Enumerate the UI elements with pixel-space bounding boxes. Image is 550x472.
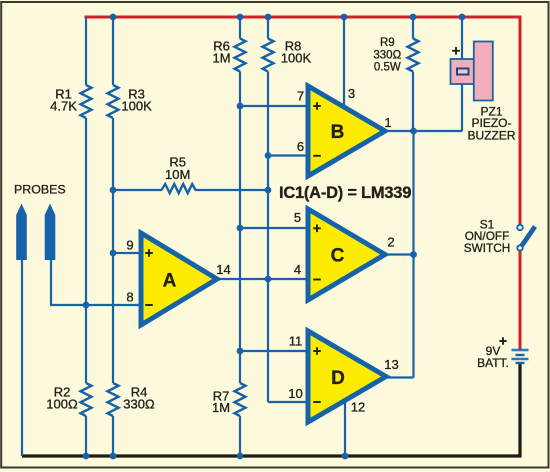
- op-amp comparator IC1A: [141, 233, 217, 325]
- svg-text:IC1(A-D) = LM339: IC1(A-D) = LM339: [279, 184, 411, 202]
- wire: pin 12 ground of IC1 to ground bus: [344, 399, 346, 456]
- resistor R6: [235, 39, 246, 72]
- wire: R9 pull-up branch vertical: [412, 17, 414, 131]
- junction: rail / R8 branch: [265, 14, 272, 21]
- wire: switch S1 to battery positive (red): [519, 251, 522, 350]
- svg-text:13: 13: [384, 357, 398, 372]
- junction: ground / pin 12: [342, 453, 349, 460]
- label: R3 value: [121, 87, 152, 114]
- resistor R7: [235, 383, 246, 416]
- svg-text:0.5W: 0.5W: [374, 62, 401, 74]
- svg-text:SWITCH: SWITCH: [464, 241, 511, 255]
- svg-text:B: B: [331, 122, 345, 143]
- svg-text:4.7K: 4.7K: [50, 98, 77, 113]
- junction: rail / R6 branch: [237, 14, 244, 21]
- wire: R1-R2 sensing branch vertical: [85, 17, 87, 456]
- junction: ground / R7: [237, 453, 244, 460]
- resistor R3: [108, 85, 119, 118]
- svg-text:BATT.: BATT.: [477, 356, 509, 370]
- wire: output bus to piezo buzzer negative: [414, 130, 463, 132]
- svg-text:1M: 1M: [212, 400, 230, 415]
- junction: R5 left / R3 branch: [110, 187, 117, 194]
- svg-text:1: 1: [384, 115, 391, 130]
- svg-text:1M: 1M: [212, 51, 230, 66]
- op-amp comparator IC1D: [308, 331, 386, 422]
- svg-text:2: 2: [387, 235, 394, 250]
- svg-text:D: D: [331, 368, 345, 389]
- wire: output bus vertical joining outputs of B, C and D: [412, 131, 414, 378]
- label: R1 value: [50, 87, 77, 114]
- probe P1: [16, 204, 27, 261]
- junction: R6 bottom / pin 7: [237, 103, 244, 110]
- label: R6 value: [212, 38, 230, 65]
- label: PZ1 PIEZO-BUZZER: [468, 104, 516, 142]
- resistor R2: [81, 383, 92, 416]
- probe P2: [45, 204, 56, 261]
- junction: C output / output bus: [410, 251, 417, 258]
- wire: pin 7 non-inverting input of comparator B: [240, 105, 308, 107]
- svg-text:A: A: [163, 271, 177, 292]
- junction: rail / R9 branch: [410, 14, 417, 21]
- wire: R3-R4 reference branch vertical: [112, 17, 114, 456]
- wire: comparator B output pin 1 to output bus: [381, 130, 414, 132]
- switch S1: [517, 225, 535, 251]
- svg-text:100K: 100K: [121, 98, 152, 113]
- junction: A output / R8 branch: [265, 276, 272, 283]
- svg-text:PROBES: PROBES: [14, 183, 66, 197]
- label: R8 value: [281, 38, 312, 65]
- svg-text:11: 11: [289, 334, 303, 349]
- label: C non-inverting marker +: [313, 225, 321, 233]
- svg-text:4: 4: [294, 262, 301, 277]
- label: D non-inverting marker +: [313, 347, 321, 355]
- svg-text:9: 9: [126, 238, 133, 253]
- svg-text:5: 5: [294, 210, 301, 225]
- wire: R8 pull-up branch vertical: [267, 17, 269, 402]
- junction: rail / pin 3 supply: [341, 14, 348, 21]
- battery BATT 9V: [512, 350, 529, 363]
- resistor R4: [108, 383, 119, 416]
- resistor R8: [263, 39, 274, 72]
- junction: R5 right / R8 branch: [265, 187, 272, 194]
- junction: rail / R3 branch: [110, 14, 117, 21]
- junction: divider / pin 5: [237, 225, 244, 232]
- junction: B output / R9 / buzzer node: [410, 128, 417, 135]
- wire: +9V supply rail (red) from R1 branch to switch S1: [86, 17, 520, 225]
- svg-text:330Ω: 330Ω: [373, 49, 401, 61]
- op-amp comparator IC1B: [308, 86, 385, 176]
- svg-text:8: 8: [126, 290, 133, 305]
- wire: comparator C output pin 2 to output bus: [381, 253, 414, 255]
- label: battery polarity +: [499, 337, 506, 344]
- junction: rail / buzzer positive: [459, 14, 466, 21]
- svg-text:100Ω: 100Ω: [46, 396, 78, 411]
- svg-text:R9: R9: [380, 37, 395, 49]
- label: S1 ON/OFF SWITCH: [464, 217, 511, 255]
- wire: comparator A output pin 14 to pin 4 inverting input of comparator C: [213, 278, 308, 280]
- label: R4 value: [123, 384, 155, 411]
- junction: pin 8 / R1 branch: [83, 302, 90, 309]
- junction: ground / R2: [83, 453, 90, 460]
- junction: divider / pin 11: [237, 348, 244, 355]
- label: B inverting marker -: [313, 155, 321, 157]
- label: R5 value: [165, 154, 190, 182]
- label: A inverting marker -: [145, 304, 153, 306]
- svg-text:100K: 100K: [281, 51, 312, 66]
- label: C inverting marker -: [313, 279, 321, 281]
- junction: R8 bottom / pin 6: [265, 152, 272, 159]
- wire: comparator D output pin 13 to output bus: [382, 376, 414, 378]
- resistor R9: [408, 39, 419, 72]
- label: D inverting marker -: [313, 401, 321, 403]
- svg-text:3: 3: [348, 86, 355, 101]
- svg-text:10: 10: [288, 386, 302, 401]
- wire: piezo buzzer positive from rail: [461, 17, 463, 131]
- svg-text:14: 14: [216, 262, 230, 277]
- svg-text:7: 7: [297, 89, 304, 104]
- wire: pin 5 non-inverting input of comparator C: [240, 227, 308, 229]
- label: R7 value: [212, 389, 230, 415]
- op-amp comparator IC1C: [308, 209, 385, 300]
- svg-text:BUZZER: BUZZER: [468, 128, 516, 142]
- wire: pin 11 non-inverting input of comparator D: [240, 350, 308, 352]
- wire: probe 2 to inverting input pin 8 of comparator A: [51, 256, 141, 305]
- label: buzzer polarity +: [452, 47, 460, 55]
- label: 9V BATT.: [477, 344, 509, 370]
- piezo buzzer PZ1: [451, 42, 493, 101]
- wire: pin 3 V+ supply of IC1 from rail: [343, 17, 345, 108]
- resistor R5: [162, 184, 196, 193]
- wire: R5 feedback branch horizontal: [113, 189, 268, 191]
- wire: probe 1 down to ground bus: [21, 256, 23, 456]
- wire: pin 9 non-inverting input of comparator A: [113, 252, 141, 254]
- svg-text:6: 6: [297, 139, 304, 154]
- junction: pin 9 / R3 branch: [110, 250, 117, 257]
- label: R9 value: [373, 37, 401, 73]
- svg-text:C: C: [331, 246, 345, 267]
- label: A non-inverting marker +: [145, 249, 153, 257]
- label: B non-inverting marker +: [313, 102, 321, 110]
- svg-text:12: 12: [351, 400, 365, 415]
- wire: R6-R7 divider branch vertical: [239, 17, 241, 456]
- wire: pin 10 inverting input of comparator D: [268, 401, 308, 403]
- wire: pin 6 inverting input of comparator B: [268, 154, 308, 156]
- wire: battery negative to ground bus (black): [22, 364, 520, 457]
- svg-text:330Ω: 330Ω: [123, 396, 155, 411]
- label: R2 value: [46, 384, 78, 411]
- junction: ground / R4: [110, 453, 117, 460]
- svg-text:10M: 10M: [165, 167, 190, 182]
- resistor R1: [81, 85, 92, 118]
